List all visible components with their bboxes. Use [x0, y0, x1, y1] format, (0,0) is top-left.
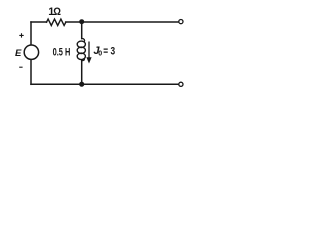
inductor L coil entry tail: [82, 38, 85, 41]
voltage source E: [24, 45, 38, 59]
wire middle vertical upper: [81, 22, 83, 39]
resistor R (1 ohm): [47, 19, 66, 25]
wire left vertical upper: [30, 22, 32, 45]
svg-text:Ω: Ω: [53, 6, 61, 18]
current arrow J0: [87, 42, 91, 63]
wire top-right segment: [66, 21, 179, 23]
node dot bottom: [79, 82, 84, 87]
terminal bottom-right: [179, 82, 183, 86]
svg-text:= 3: = 3: [103, 45, 115, 57]
node dot top: [79, 19, 84, 24]
terminal top-right: [179, 20, 183, 24]
svg-text:0.5 H: 0.5 H: [53, 47, 71, 59]
wire top-left segment: [31, 21, 47, 23]
minus sign: [19, 66, 22, 68]
plus sign: [19, 33, 23, 37]
svg-text:0: 0: [98, 51, 102, 58]
inductor L (0.5 H) coil loops: [77, 41, 85, 60]
wire left vertical lower: [30, 60, 32, 85]
inductor L coil exit tail: [82, 59, 84, 61]
wire bottom: [31, 83, 178, 85]
svg-text:E: E: [15, 48, 22, 59]
wire middle vertical lower: [81, 61, 83, 85]
